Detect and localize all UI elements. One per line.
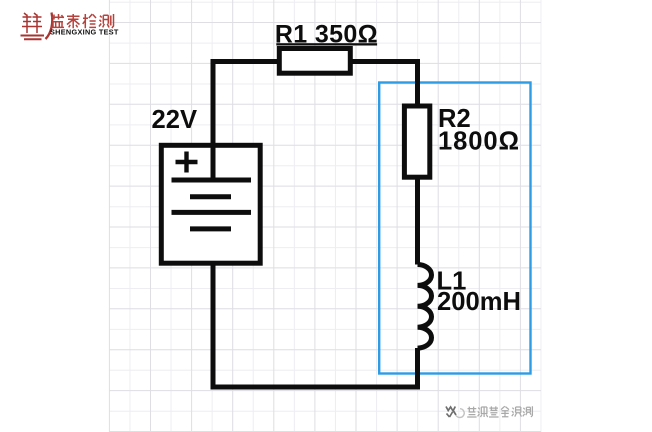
svg-text:22V: 22V (152, 106, 198, 134)
svg-text:200mH: 200mH (437, 288, 521, 316)
svg-text:SHENGXING TEST: SHENGXING TEST (50, 28, 119, 37)
svg-text:1800Ω: 1800Ω (438, 128, 520, 156)
